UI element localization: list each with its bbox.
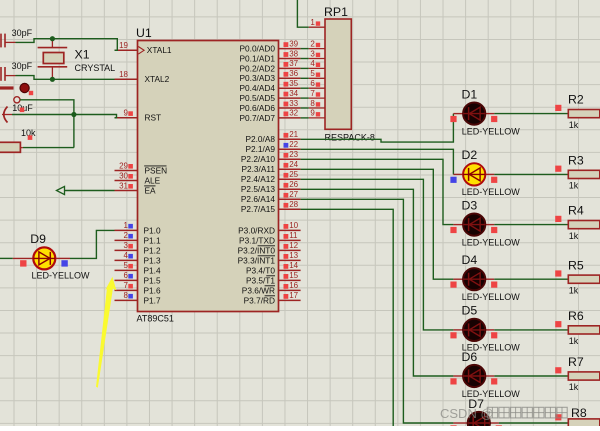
watermark CSDN (440, 406, 567, 421)
svg-text:8: 8 (124, 291, 129, 300)
value label LED-YELLOW (D9) (32, 271, 91, 281)
pin 29 PSEN (115, 161, 168, 175)
RP1 pin 4 (309, 59, 325, 68)
svg-text:2: 2 (310, 39, 315, 48)
capacitor C3 10uF terminal ring (14, 97, 20, 103)
wire P0.0 to RP1 pin 2 (301, 48, 309, 50)
svg-text:AT89C51: AT89C51 (137, 314, 174, 324)
RP1 pin 9 (309, 109, 325, 118)
svg-text:CSDN @: CSDN @ (440, 406, 494, 421)
svg-text:15: 15 (289, 271, 298, 280)
wire P2.0 to D1 (301, 114, 454, 143)
wire C2 to XTAL2 (16, 76, 115, 80)
label R6 (568, 309, 584, 323)
RP1 pin 2 (309, 39, 325, 48)
pin 31 EA (115, 181, 157, 195)
wire 10k to node (23, 147, 74, 149)
power marker (clipped, left edge) (0, 86, 14, 89)
svg-text:P3.2/INT0: P3.2/INT0 (238, 245, 276, 255)
wire P0.4 to RP1 pin 6 (301, 87, 309, 89)
label D5 (462, 304, 478, 318)
capacitor C1 30pF (1, 34, 16, 48)
resistor R2 1k (568, 110, 600, 118)
LED D7 (453, 412, 499, 431)
pin 19 XTAL1 (115, 41, 172, 55)
pin 36 P0.3/AD3 (239, 69, 300, 83)
RP1 pin 6 (309, 79, 325, 88)
value label LED-YELLOW (D2) (462, 187, 521, 197)
svg-text:P1.4: P1.4 (144, 265, 161, 275)
value label LED-YELLOW (D1) (462, 126, 521, 136)
label R2 (568, 93, 584, 107)
svg-text:D5: D5 (462, 304, 478, 318)
pin 32 P0.7/AD7 (239, 109, 300, 123)
svg-text:33: 33 (289, 99, 298, 108)
wire P2.5 to D6 (301, 189, 454, 376)
wire D6 to R7 (494, 375, 568, 377)
RP1 pin 5 (309, 69, 325, 78)
resistor R3 1k (568, 170, 600, 178)
pin 34 P0.5/AD5 (239, 89, 300, 103)
svg-text:P1.1: P1.1 (144, 235, 161, 245)
svg-text:22: 22 (289, 140, 298, 149)
svg-text:30pF: 30pF (12, 28, 33, 38)
wire D2 to R3 (494, 173, 568, 175)
svg-text:21: 21 (289, 130, 298, 139)
wire P2.1 to D2 (301, 149, 454, 174)
wire D5 to R6 (494, 329, 568, 331)
pin 16 P3.6/WR (242, 281, 301, 295)
pin 22 P2.1/A9 (245, 140, 300, 154)
svg-text:P0.6/AD6: P0.6/AD6 (239, 103, 275, 113)
svg-text:13: 13 (289, 251, 298, 260)
label D4 (462, 253, 478, 267)
wire P0.3 to RP1 pin 5 (301, 77, 309, 79)
svg-text:1k: 1k (569, 231, 579, 241)
wire D1 to R2 (494, 113, 568, 115)
label D6 (462, 350, 478, 364)
pin 4 P1.3 (115, 251, 161, 265)
svg-text:5: 5 (124, 261, 129, 270)
svg-text:P3.6/WR: P3.6/WR (242, 285, 275, 295)
svg-text:RP1: RP1 (324, 5, 348, 19)
resistor R4 1k (568, 221, 600, 229)
value label 1k (R2) (569, 120, 579, 130)
pin 28 P2.7/A15 (241, 200, 301, 214)
label RP1 (324, 5, 348, 19)
svg-text:P2.1/A9: P2.1/A9 (245, 144, 275, 154)
svg-text:38: 38 (289, 49, 298, 58)
svg-text:4: 4 (310, 59, 315, 68)
svg-text:6: 6 (124, 271, 129, 280)
LED D6 (453, 365, 494, 387)
pin 12 P3.2/INT0 (238, 241, 301, 255)
svg-text:P2.4/A12: P2.4/A12 (241, 174, 276, 184)
resistor R1 10k (0, 142, 23, 152)
value label 10uF (12, 103, 33, 113)
value label LED-YELLOW (D5) (462, 343, 521, 353)
label D7 (468, 397, 484, 411)
D6 pin state squares (450, 378, 497, 384)
pin 1 P1.0 (115, 221, 161, 235)
value label 1k (R3) (569, 181, 579, 191)
svg-text:P0.2/AD2: P0.2/AD2 (239, 63, 275, 73)
svg-text:P3.5/T1: P3.5/T1 (246, 275, 275, 285)
pin 7 P1.6 (115, 281, 161, 295)
svg-text:P3.7/RD: P3.7/RD (244, 295, 275, 305)
svg-text:R5: R5 (568, 258, 584, 272)
capacitor C3 curved plate (2, 107, 12, 123)
pin 38 P0.1/AD1 (239, 49, 300, 63)
pin 23 P2.2/A10 (241, 150, 301, 164)
LED D2 (453, 163, 494, 185)
junction node RST (71, 112, 76, 117)
R4 pin state square (555, 216, 561, 222)
svg-text:1k: 1k (569, 120, 579, 130)
wire P2.3 to D4 (301, 169, 454, 279)
LED D9 (lit yellow) (13, 247, 70, 269)
svg-text:LED-YELLOW: LED-YELLOW (462, 187, 521, 197)
svg-text:9: 9 (124, 109, 129, 118)
D7 pin state squares (450, 425, 502, 431)
svg-text:PSEN: PSEN (145, 165, 168, 175)
wire D3 to R4 (494, 224, 568, 226)
value label LED-YELLOW (D3) (462, 237, 521, 247)
pin 14 P3.4/T0 (246, 261, 301, 275)
D4 pin state squares (450, 282, 497, 288)
svg-text:U1: U1 (136, 26, 152, 40)
svg-text:19: 19 (119, 41, 128, 50)
wire D7 to R8 (499, 422, 568, 424)
svg-text:P3.1/TXD: P3.1/TXD (239, 235, 275, 245)
resistor R7 1k (568, 372, 600, 380)
svg-text:R3: R3 (568, 154, 584, 168)
pin 5 P1.4 (115, 261, 161, 275)
svg-text:XTAL1: XTAL1 (147, 45, 172, 55)
svg-text:5: 5 (310, 69, 315, 78)
svg-text:R8: R8 (571, 406, 587, 420)
svg-text:P2.5/A13: P2.5/A13 (241, 184, 276, 194)
svg-text:LED-YELLOW: LED-YELLOW (462, 126, 521, 136)
svg-text:29: 29 (119, 161, 128, 170)
svg-text:32: 32 (289, 109, 298, 118)
value label LED-YELLOW (D4) (462, 292, 521, 302)
pin 21 P2.0/A8 (245, 130, 300, 144)
pin 10 P3.0/RXD (238, 221, 300, 235)
value label 1k (R5) (569, 285, 579, 295)
svg-text:35: 35 (289, 79, 298, 88)
svg-text:1: 1 (310, 18, 315, 27)
yellow mouse cursor arrow (96, 277, 116, 388)
svg-text:17: 17 (289, 291, 298, 300)
svg-text:RST: RST (145, 113, 162, 123)
svg-text:P1.0: P1.0 (144, 225, 161, 235)
svg-text:P2.7/A15: P2.7/A15 (241, 204, 276, 214)
svg-text:ALE: ALE (145, 175, 161, 185)
svg-text:P3.4/T0: P3.4/T0 (246, 265, 275, 275)
value label 1k (R6) (569, 336, 579, 346)
svg-text:P0.5/AD5: P0.5/AD5 (239, 93, 275, 103)
svg-text:36: 36 (289, 69, 298, 78)
svg-text:30pF: 30pF (12, 61, 33, 71)
svg-text:D6: D6 (462, 350, 478, 364)
svg-text:D2: D2 (462, 148, 478, 162)
svg-text:16: 16 (289, 281, 298, 290)
svg-text:6: 6 (310, 79, 315, 88)
svg-text:11: 11 (289, 231, 298, 240)
LED D1 (453, 103, 494, 125)
svg-text:30: 30 (119, 171, 128, 180)
svg-text:EA: EA (145, 185, 157, 195)
svg-text:9: 9 (310, 109, 315, 118)
svg-text:1k: 1k (569, 285, 579, 295)
junction node crystal top (50, 36, 55, 41)
pin 17 P3.7/RD (244, 291, 301, 305)
D3 pin state squares (450, 227, 497, 233)
LED D3 (453, 214, 494, 236)
pin 9 RST (115, 109, 162, 123)
value label RESPACK-8 (325, 132, 375, 142)
wire P0.6 to RP1 pin 8 (301, 107, 309, 109)
marker red circle (20, 83, 33, 95)
R6 pin state square (555, 321, 561, 327)
label R4 (568, 204, 584, 218)
svg-text:37: 37 (289, 59, 298, 68)
R5 pin state square (555, 270, 561, 276)
value label 30pF (C2) (12, 61, 33, 71)
arrow terminal on EA wire (57, 186, 65, 194)
svg-text:R7: R7 (568, 355, 584, 369)
wire P0.1 to RP1 pin 3 (301, 58, 309, 60)
wire P0.5 to RP1 pin 7 (301, 97, 309, 99)
D2 pin state squares (450, 177, 497, 183)
value label 10k (21, 128, 36, 140)
wire P2.4 to D5 (301, 179, 454, 330)
svg-text:34: 34 (289, 89, 298, 98)
pin 18 XTAL2 (115, 70, 170, 84)
wire P0.7 to RP1 pin 9 (301, 117, 309, 119)
pin 24 P2.3/A11 (241, 160, 300, 174)
svg-text:31: 31 (119, 181, 128, 190)
chip U1 AT89C51 body (138, 41, 279, 312)
LED D4 (453, 268, 494, 290)
svg-text:39: 39 (289, 39, 298, 48)
svg-text:28: 28 (289, 200, 298, 209)
svg-text:27: 27 (289, 190, 298, 199)
label R8 (571, 406, 587, 420)
label R7 (568, 355, 584, 369)
svg-text:4: 4 (124, 251, 129, 260)
svg-text:RESPACK-8: RESPACK-8 (325, 132, 375, 142)
svg-text:3: 3 (124, 241, 129, 250)
pin 11 P3.1/TXD (239, 231, 301, 245)
pin 26 P2.5/A13 (241, 180, 301, 194)
R2 pin state square (555, 105, 561, 111)
pin 30 ALE (115, 171, 161, 185)
crystal X1 (38, 39, 68, 80)
wire RP1 pin1 to VCC (top edge) (297, 0, 308, 27)
RP1 pin 8 (309, 99, 325, 108)
D1 pin state squares (450, 116, 497, 122)
label R3 (568, 154, 584, 168)
svg-text:X1: X1 (75, 48, 90, 62)
wire D4 to R5 (494, 278, 568, 280)
svg-text:P0.0/AD0: P0.0/AD0 (239, 44, 275, 54)
svg-text:23: 23 (289, 150, 298, 159)
wire C1 to XTAL1 (16, 39, 118, 51)
value label LED-YELLOW (D6) (462, 389, 521, 399)
value label CRYSTAL (75, 63, 116, 73)
label D3 (462, 198, 478, 212)
value label AT89C51 (137, 314, 174, 324)
svg-text:P0.3/AD3: P0.3/AD3 (239, 73, 275, 83)
pin 35 P0.4/AD4 (239, 79, 300, 93)
pin 15 P3.5/T1 (246, 271, 301, 285)
svg-text:25: 25 (289, 170, 298, 179)
svg-text:D3: D3 (462, 198, 478, 212)
resistor pack RP1 body (325, 19, 351, 129)
svg-text:P1.3: P1.3 (144, 255, 161, 265)
svg-text:R2: R2 (568, 93, 584, 107)
pin 8 P1.7 (115, 291, 161, 305)
pin 13 P3.3/INT1 (238, 251, 301, 265)
resistor R8 1k (568, 419, 600, 427)
svg-text:P0.7/AD7: P0.7/AD7 (239, 113, 275, 123)
svg-text:D1: D1 (462, 87, 478, 101)
svg-text:XTAL2: XTAL2 (145, 74, 170, 84)
value label 1k (R8) (569, 429, 579, 431)
wire P2.2 to D3 (301, 159, 454, 224)
label X1 (75, 48, 90, 62)
RP1 pin 1 (309, 18, 325, 27)
svg-text:D9: D9 (30, 232, 46, 246)
svg-text:D4: D4 (462, 253, 478, 267)
pin 3 P1.2 (115, 241, 161, 255)
svg-text:P3.0/RXD: P3.0/RXD (238, 225, 275, 235)
svg-text:P3.3/INT1: P3.3/INT1 (238, 255, 276, 265)
D5 pin state squares (450, 332, 497, 338)
capacitor C2 30pF (1, 67, 16, 81)
pin 2 P1.1 (115, 231, 161, 245)
svg-text:1k: 1k (569, 181, 579, 191)
svg-text:P1.2: P1.2 (144, 245, 161, 255)
wire C3 ring to node (20, 100, 74, 148)
svg-text:14: 14 (289, 261, 298, 270)
pin 33 P0.6/AD6 (239, 99, 300, 113)
svg-text:P1.5: P1.5 (144, 275, 161, 285)
D9 pin state squares (20, 260, 68, 266)
wire EA (64, 190, 115, 192)
label D1 (462, 87, 478, 101)
resistor R5 1k (568, 275, 600, 283)
svg-text:7: 7 (124, 281, 129, 290)
pin 39 P0.0/AD0 (239, 39, 300, 53)
label D9 (30, 232, 46, 246)
wire D9 cathode to P1.0 (70, 230, 115, 258)
LED D5 (453, 319, 494, 341)
wire P2.6 to D7 (301, 199, 454, 423)
svg-text:3: 3 (310, 49, 315, 58)
svg-text:8: 8 (310, 99, 315, 108)
label U1 (136, 26, 152, 40)
svg-text:R4: R4 (568, 204, 584, 218)
label D2 (462, 148, 478, 162)
junction node crystal bottom (50, 77, 55, 82)
svg-text:LED-YELLOW: LED-YELLOW (462, 292, 521, 302)
svg-text:P1.6: P1.6 (144, 285, 161, 295)
svg-text:P2.0/A8: P2.0/A8 (245, 134, 275, 144)
svg-text:1: 1 (124, 221, 129, 230)
value label 1k (R4) (569, 231, 579, 241)
svg-text:P0.4/AD4: P0.4/AD4 (239, 83, 275, 93)
wire RST net (12, 115, 117, 118)
wire P0.2 to RP1 pin 4 (301, 67, 309, 69)
svg-text:LED-YELLOW: LED-YELLOW (32, 271, 91, 281)
svg-text:26: 26 (289, 180, 298, 189)
RP1 pin 3 (309, 49, 325, 58)
svg-text:1k: 1k (569, 382, 579, 392)
pin 27 P2.6/A14 (241, 190, 301, 204)
R8 pin state square (555, 414, 561, 420)
svg-text:1k: 1k (569, 336, 579, 346)
svg-text:P2.2/A10: P2.2/A10 (241, 154, 276, 164)
svg-text:24: 24 (289, 160, 298, 169)
svg-text:P2.3/A11: P2.3/A11 (241, 164, 275, 174)
label R5 (568, 258, 584, 272)
svg-text:P0.1/AD1: P0.1/AD1 (239, 53, 275, 63)
svg-text:P1.7: P1.7 (144, 295, 161, 305)
svg-text:R6: R6 (568, 309, 584, 323)
svg-text:18: 18 (119, 70, 128, 79)
value label 1k (R7) (569, 382, 579, 392)
value label 30pF (C1) (12, 28, 33, 38)
pin 25 P2.4/A12 (241, 170, 301, 184)
pin 37 P0.2/AD2 (239, 59, 300, 73)
svg-text:12: 12 (289, 241, 298, 250)
svg-text:7: 7 (310, 89, 315, 98)
wire left edge to D9 anode (0, 257, 13, 259)
svg-text:10: 10 (289, 221, 298, 230)
svg-text:P2.6/A14: P2.6/A14 (241, 194, 276, 204)
RP1 pin 7 (309, 89, 325, 98)
R7 pin state square (555, 367, 561, 373)
svg-text:2: 2 (124, 231, 129, 240)
svg-text:LED-YELLOW: LED-YELLOW (462, 237, 521, 247)
svg-text:CRYSTAL: CRYSTAL (75, 63, 116, 73)
pin 6 P1.5 (115, 271, 161, 285)
resistor R6 1k (568, 326, 600, 334)
R3 pin state square (555, 166, 561, 172)
wire P2.7 to D8 (off bottom) (301, 209, 394, 426)
